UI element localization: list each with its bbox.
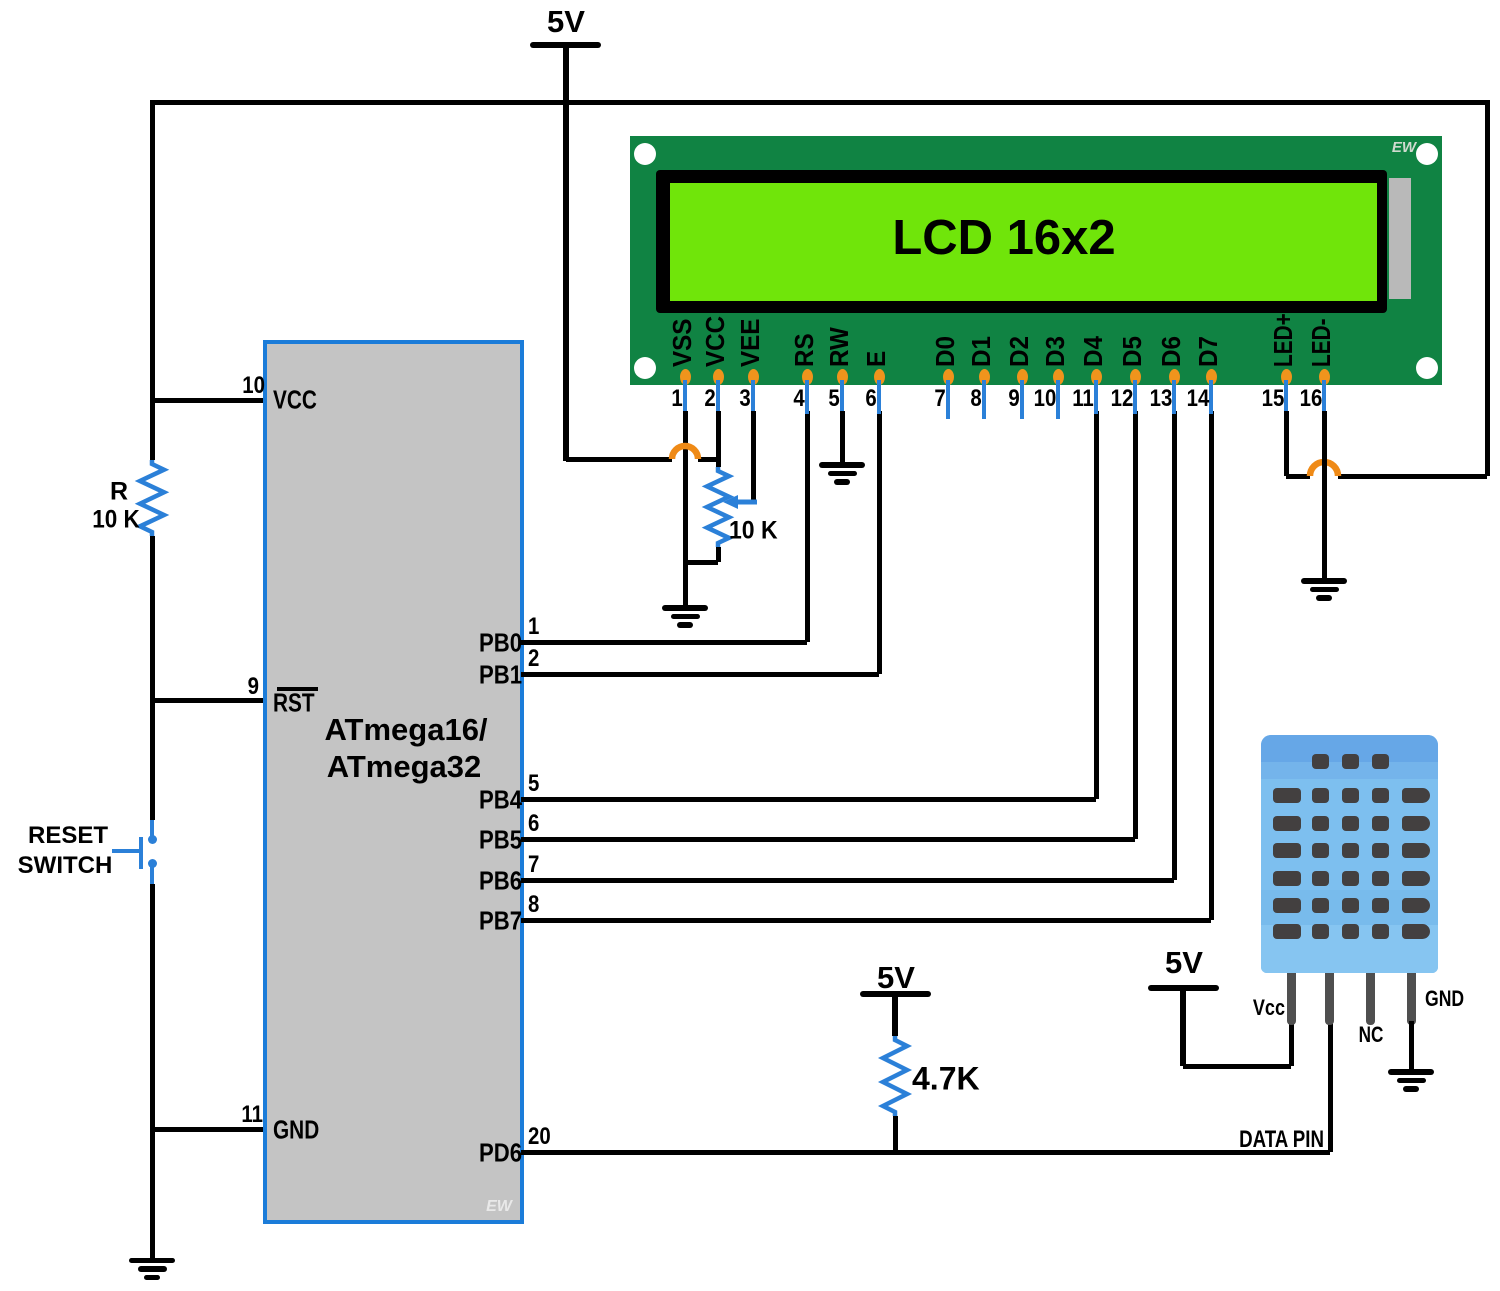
LCD bezel [656, 170, 1387, 313]
wire VEE to wiper [751, 411, 756, 502]
pin RST (9) label [273, 689, 325, 718]
label ATmega32 [327, 750, 482, 784]
LCD pin 11 D4 [1080, 336, 1107, 367]
pushbutton RESET SWITCH [150, 820, 154, 836]
pin VCC (10) label [273, 386, 328, 415]
DHT11 sensor body [1261, 735, 1438, 973]
LCD pin 9 D2 [1006, 336, 1033, 367]
wire 5V to DHT Vcc [1183, 1064, 1291, 1069]
wire: left rail below switch to ground [150, 884, 155, 1259]
LCD pin 15 LED+ [1270, 313, 1297, 367]
label 10 K (potentiometer) [729, 517, 782, 545]
LCD mounting hole [634, 357, 656, 379]
wire PB5 to LCD D5 [521, 837, 1135, 842]
wire: GND pin11 stub [152, 1127, 265, 1132]
LCD mounting hole [1416, 143, 1438, 165]
LCD pin 12 D5 [1119, 336, 1146, 367]
LCD module PCB [630, 136, 1442, 385]
label ATmega16/ [324, 713, 487, 747]
pin PD6 (20) label [471, 1139, 522, 1168]
ground (LCD LED-) [1301, 578, 1347, 584]
LCD pin 16 LED- [1308, 318, 1335, 367]
LCD pin 3 VEE [737, 319, 764, 367]
LCD screen [670, 183, 1377, 301]
ground (LCD RW) [819, 462, 865, 468]
wire PB6 to LCD D6 [521, 878, 1174, 883]
wire 5V to LCD VCC [716, 411, 721, 467]
pin number 2 [528, 646, 541, 672]
pin number 9 [246, 674, 259, 700]
power symbol 5V (middle) [860, 991, 931, 997]
LCD pin 8 D1 [968, 336, 995, 367]
pin number 10 [238, 373, 265, 399]
label RESET [28, 823, 108, 849]
DHT11 vent holes [1312, 754, 1329, 769]
pin number 1 [528, 614, 541, 640]
LCD pin 14 D7 [1195, 336, 1222, 367]
wire VSS to ground [683, 411, 688, 606]
pin PB5 (6) label [471, 826, 522, 855]
wire: top 5V power rail [150, 100, 1490, 105]
wire PB1 to LCD E [521, 672, 879, 677]
DHT11 pins [1287, 973, 1296, 1025]
wire: left vertical rail [150, 100, 155, 460]
pin GND (11) label [273, 1116, 331, 1145]
label LCD 16x2 [892, 212, 1115, 266]
wire PB0 to LCD RS [521, 640, 807, 645]
pin PB7 (8) label [471, 907, 522, 936]
label Vcc [1246, 996, 1285, 1020]
label R [110, 478, 128, 506]
LCD pin 6 E [863, 351, 890, 367]
ground (bottom left) [129, 1258, 175, 1264]
pin number 6 [528, 811, 541, 837]
label GND (DHT11) [1425, 987, 1474, 1011]
label 4.7K [912, 1061, 980, 1096]
pin number 5 [528, 771, 541, 797]
wire 4.7K to data line [893, 1116, 898, 1152]
pin number 8 [528, 892, 541, 918]
label EW watermark (chip) [486, 1198, 512, 1216]
wire DHT GND to ground [1409, 1021, 1414, 1070]
pin number 7 [528, 852, 541, 878]
wire: RST pin9 stub [152, 698, 265, 703]
wire PD6 to DHT11 data [521, 1150, 1330, 1155]
pin PB4 (5) label [471, 786, 522, 815]
pin PB6 (7) label [471, 867, 522, 896]
wire RW to ground [840, 411, 845, 463]
LCD mounting hole [634, 143, 656, 165]
label EW watermark (LCD) [1392, 140, 1416, 157]
ground (LCD VSS) [662, 605, 708, 611]
LCD pin 7 D0 [932, 336, 959, 367]
LCD pin 10 D3 [1042, 336, 1069, 367]
LCD pin 1 VSS [669, 319, 696, 367]
pin number 11 [238, 1102, 263, 1128]
LCD pin 13 D6 [1158, 336, 1185, 367]
LCD pin 5 RW [826, 327, 853, 367]
LCD pin 2 VCC [702, 316, 729, 367]
wire LED- to ground [1322, 411, 1327, 579]
power symbol 5V (top) [530, 42, 601, 48]
label SWITCH [18, 853, 113, 879]
wire: left rail below resistor to switch [150, 536, 155, 820]
pin PB0 (1) label [471, 629, 522, 658]
pin PB1 (2) label [471, 661, 522, 690]
IC U1 ATmega16/ATmega32 body [263, 340, 524, 1224]
label DATA PIN [1215, 1127, 1324, 1153]
wire PB7 to LCD D7 [521, 918, 1211, 923]
wire PB4 to LCD D4 [521, 797, 1096, 802]
wire: VCC pin10 stub [152, 398, 265, 403]
label 10 K (left resistor) [90, 506, 143, 534]
LCD pin 4 RS [791, 333, 818, 367]
ground (DHT11) [1388, 1069, 1434, 1075]
wire LED+ to 5V rail [1284, 411, 1289, 476]
LCD connector tab [1389, 178, 1411, 299]
label NC [1355, 1023, 1387, 1047]
LCD mounting hole [1416, 357, 1438, 379]
pin number 20 [528, 1124, 555, 1150]
power symbol 5V (right) [1148, 985, 1219, 991]
potentiometer bottom lead [716, 547, 721, 562]
